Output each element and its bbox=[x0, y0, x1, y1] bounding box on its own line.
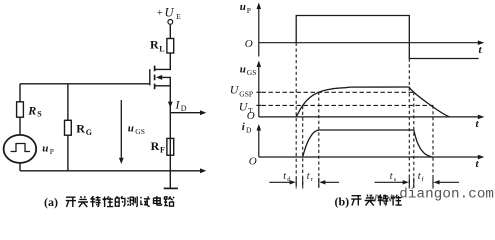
waveform uGS rise bbox=[296, 87, 409, 117]
MOSFET source lead bbox=[156, 85, 171, 87]
svg-text:u: u bbox=[42, 143, 48, 155]
svg-text:U: U bbox=[230, 83, 240, 97]
timing dimension lines bbox=[269, 178, 459, 187]
plot1 uP y-axis bbox=[258, 6, 260, 57]
top rail (gate wire) bbox=[20, 83, 150, 85]
svg-text:R: R bbox=[27, 104, 36, 118]
plot1 y arrow bbox=[257, 3, 262, 10]
wire RL to drain bbox=[156, 53, 171, 69]
resistor RL bbox=[167, 39, 174, 54]
svg-text:GS: GS bbox=[135, 127, 145, 136]
dim line left inner-right bbox=[322, 181, 339, 183]
svg-text:O: O bbox=[249, 155, 257, 167]
wire RS to pulse source bbox=[19, 117, 21, 135]
bottom rail bbox=[20, 170, 203, 172]
dashed grid lines bbox=[262, 43, 434, 189]
plot3 x arrow bbox=[478, 155, 485, 160]
plot2 y arrow bbox=[257, 61, 262, 68]
resistor RF bbox=[167, 138, 174, 155]
svg-text:u: u bbox=[240, 1, 246, 13]
dim line right outer bbox=[375, 181, 406, 183]
source wire down to bottom rail bbox=[169, 86, 171, 171]
waveform iD fall bbox=[414, 130, 433, 157]
svg-text:u: u bbox=[240, 64, 246, 76]
waveform iD rise bbox=[303, 130, 320, 157]
dashed vertical t2 bbox=[318, 92, 320, 189]
dashed level UT bbox=[262, 104, 434, 106]
dim line left outer bbox=[269, 181, 293, 183]
svg-text:G: G bbox=[86, 128, 92, 137]
svg-text:t: t bbox=[283, 171, 286, 182]
svg-text:t: t bbox=[418, 171, 421, 182]
svg-text:(a): (a) bbox=[44, 195, 58, 209]
svg-text:S: S bbox=[37, 110, 42, 119]
plot2 axis tick UT bbox=[256, 104, 261, 106]
MOSFET channel bars bbox=[154, 66, 156, 90]
dashed vertical t0 bbox=[295, 43, 297, 189]
plot1 x-axis bbox=[259, 42, 481, 44]
svg-text:t: t bbox=[307, 171, 310, 182]
pulse glyph inside source bbox=[11, 144, 31, 152]
plot2 x-axis bbox=[259, 116, 481, 118]
plot labels bbox=[230, 1, 483, 183]
svg-text:D: D bbox=[246, 125, 252, 134]
uGS annotation arrow line bbox=[120, 100, 122, 160]
uGS annotation arrowhead bbox=[119, 158, 124, 164]
dashed vertical t5 bbox=[413, 92, 415, 189]
svg-text:+: + bbox=[157, 8, 163, 19]
svg-text:L: L bbox=[159, 45, 164, 54]
transistor V (MOSFET) gate bar bbox=[149, 69, 151, 85]
pulse source uP circle bbox=[4, 135, 37, 163]
output arrowhead upper bbox=[200, 110, 206, 115]
dashed level UGSP bbox=[262, 91, 414, 93]
resistor RS bbox=[17, 102, 24, 117]
caption (a) chinese: 开关特性的测试电路 bbox=[66, 196, 174, 207]
plot3 x-axis bbox=[259, 156, 481, 158]
dim arrow into t4 bbox=[403, 180, 409, 184]
plot2 uGS y-axis bbox=[258, 64, 260, 117]
axis arrowheads bbox=[257, 3, 485, 160]
svg-text:O: O bbox=[247, 110, 255, 122]
waveform uGS fall bbox=[409, 87, 450, 117]
dashed vertical t4 bbox=[408, 59, 410, 189]
svg-text:u: u bbox=[128, 123, 134, 135]
svg-text:F: F bbox=[160, 146, 165, 155]
svg-text:R: R bbox=[150, 38, 159, 52]
dim arrow into t6 bbox=[434, 180, 440, 184]
MOSFET body lead with arrow bbox=[158, 77, 170, 85]
svg-text:R: R bbox=[76, 122, 85, 136]
svg-text:P: P bbox=[247, 6, 251, 15]
dashed vertical t1 bbox=[302, 106, 304, 189]
svg-text:(b): (b) bbox=[335, 195, 350, 209]
svg-text:P: P bbox=[50, 147, 54, 156]
svg-text:GS: GS bbox=[247, 68, 257, 77]
dim arrow into t2 bbox=[319, 180, 325, 184]
label +UE bbox=[157, 6, 181, 22]
wire RG to bottom rail bbox=[67, 135, 69, 171]
waveform iD flat top bbox=[319, 129, 414, 131]
caption (b) chinese: 开关特性 bbox=[351, 195, 401, 206]
plot1 x arrow bbox=[478, 40, 485, 45]
ground bar bbox=[164, 187, 178, 189]
resistor RG bbox=[65, 120, 72, 135]
ground stem bbox=[169, 171, 171, 189]
svg-text:t: t bbox=[390, 171, 393, 182]
waveform uP pulse bbox=[296, 16, 478, 59]
wire terminal to RL bbox=[169, 25, 171, 39]
plot2 axis tick UGSP bbox=[256, 91, 261, 93]
dim line right inner-right bbox=[437, 181, 459, 183]
output wire upper bbox=[170, 112, 202, 114]
output arrowhead lower (bottom rail) bbox=[200, 168, 206, 173]
MOSFET body arrowhead bbox=[156, 75, 162, 80]
supply terminal +UE circle bbox=[168, 20, 173, 25]
dashed vertical t6 bbox=[432, 105, 434, 188]
svg-text:GSP: GSP bbox=[239, 90, 253, 99]
svg-text:diangon.com: diangon.com bbox=[399, 187, 494, 203]
svg-text:U: U bbox=[165, 6, 175, 20]
dim ticks t4 t5 t6 bbox=[409, 178, 433, 187]
svg-text:R: R bbox=[151, 139, 160, 153]
svg-text:O: O bbox=[245, 38, 253, 50]
plot2 x arrow bbox=[478, 115, 485, 120]
dim arrow into t0 bbox=[290, 180, 296, 184]
svg-text:E: E bbox=[176, 12, 181, 21]
plot3 y arrow bbox=[257, 124, 262, 131]
svg-text:D: D bbox=[181, 104, 187, 113]
wire source to bottom rail bbox=[19, 163, 21, 171]
wire rail to RG bbox=[67, 84, 69, 121]
dim ticks t0 t1 t2 bbox=[296, 178, 319, 187]
ID arrowhead on source wire bbox=[168, 102, 173, 108]
wire rail down to RS bbox=[19, 84, 21, 102]
watermark www.diangon.com bbox=[369, 187, 494, 206]
plot3 iD y-axis bbox=[258, 128, 260, 158]
